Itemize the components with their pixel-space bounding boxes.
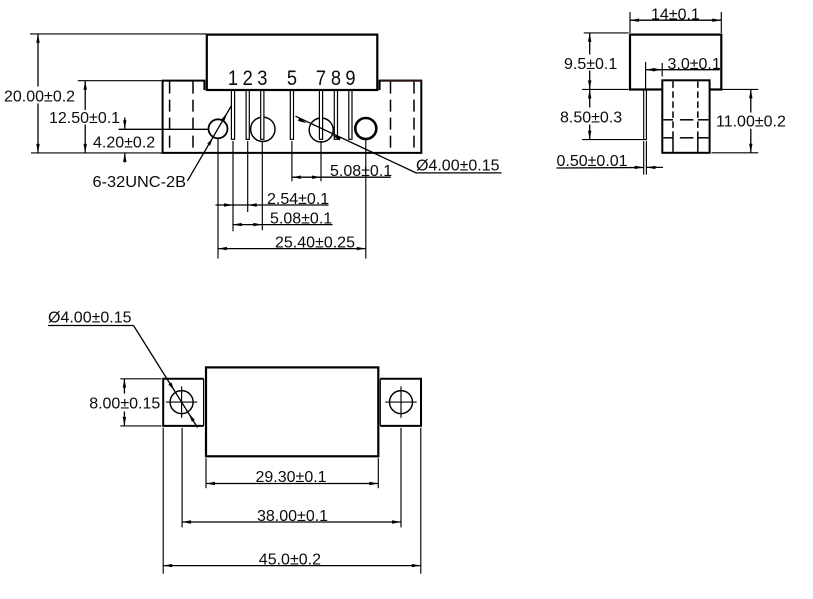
svg-text:1: 1: [228, 66, 238, 90]
pin 7 lead: [319, 91, 322, 140]
clearance circle behind pin 7 (Ø4.00): [309, 118, 333, 142]
clearance circle behind pin 3: [251, 117, 275, 141]
side view connector block: [662, 80, 709, 153]
pin 8 lead: [334, 91, 337, 140]
plan view body: [206, 367, 378, 456]
left hole crosshair h: [166, 401, 197, 403]
extension pin 3: [261, 141, 263, 230]
hidden edge left slot line 2: [192, 82, 194, 152]
pin width extension right: [645, 141, 647, 174]
dimension 14±0.1: [629, 12, 631, 33]
dimension 38.00±0.1: [181, 428, 183, 528]
extension pin 7: [320, 141, 322, 181]
svg-text:Ø4.00±0.15: Ø4.00±0.15: [416, 158, 500, 175]
dimension 25.40±0.25: [218, 248, 366, 250]
svg-text:11.00±0.2: 11.00±0.2: [716, 113, 786, 130]
plan left mounting hole: [170, 391, 193, 414]
hidden edge right slot line 1: [390, 82, 392, 152]
svg-text:2.54±0.1: 2.54±0.1: [267, 191, 329, 208]
svg-text:9.5±0.1: 9.5±0.1: [564, 56, 617, 73]
svg-text:8.00±0.15: 8.00±0.15: [89, 395, 160, 412]
svg-text:9: 9: [345, 66, 355, 90]
leader line Ø4.00 front: [296, 116, 417, 173]
dimension 5.08±0.1 pins 1-3: [233, 224, 333, 226]
dimension 9.5±0.1: [584, 32, 629, 34]
front view lid/cap: [207, 35, 377, 90]
right hole crosshair h: [385, 401, 416, 403]
pin 5 lead: [290, 91, 293, 140]
dimension 12.50±0.1: [78, 80, 162, 82]
plan view left tab: [163, 379, 203, 426]
dimension 45.0±0.2: [162, 428, 164, 574]
svg-text:7: 7: [316, 66, 326, 90]
svg-text:8.50±0.3: 8.50±0.3: [560, 109, 622, 126]
side view body: [630, 35, 721, 90]
block solid line right lower: [697, 138, 699, 152]
hole centre leader: [119, 128, 209, 130]
dimension 2.54±0.1 pins 1-2: [216, 204, 329, 206]
svg-text:2: 2: [243, 66, 253, 90]
svg-text:14±0.1: 14±0.1: [651, 6, 700, 23]
svg-text:3: 3: [257, 66, 267, 90]
extension pin 2: [247, 141, 249, 212]
dimension 8.50±0.3: [589, 89, 591, 107]
dimension 20.00±0.2: [30, 33, 206, 35]
extension left hole centre: [217, 139, 219, 259]
tapped hole 6-32UNC left: [209, 119, 228, 138]
block hidden line right: [697, 81, 699, 137]
extension pin 1: [232, 141, 234, 231]
block solid line left lower: [672, 138, 674, 152]
front view flange outline: [163, 81, 422, 153]
svg-text:8: 8: [331, 66, 341, 90]
plan view right tab: [380, 379, 421, 426]
svg-text:5.08±0.1: 5.08±0.1: [330, 163, 392, 180]
svg-text:6-32UNC-2B: 6-32UNC-2B: [93, 174, 187, 191]
svg-text:4.20±0.2: 4.20±0.2: [93, 134, 155, 151]
diameter arrow left: [298, 118, 307, 123]
svg-text:3.0±0.1: 3.0±0.1: [668, 56, 721, 73]
svg-text:Ø4.00±0.15: Ø4.00±0.15: [48, 309, 132, 326]
leader line 6-32UNC-2B: [188, 106, 232, 181]
plan right tab inner edge: [379, 379, 381, 426]
pin 2 lead: [246, 91, 249, 140]
svg-text:5.08±0.1: 5.08±0.1: [270, 211, 332, 228]
extension right hole centre: [365, 140, 367, 259]
pin 3 lead: [261, 91, 264, 140]
svg-text:5: 5: [287, 66, 297, 90]
flange top-right edge: [381, 80, 422, 82]
dimension 3.0±0.1: [645, 62, 647, 89]
block hidden line left: [672, 81, 674, 137]
left hole crosshair v: [181, 386, 183, 417]
dimension 4.20±0.2: [124, 118, 126, 130]
dimension 29.30±0.1: [205, 458, 207, 488]
svg-text:12.50±0.1: 12.50±0.1: [49, 110, 120, 127]
dimension 11.00±0.2: [723, 88, 759, 90]
dimension 8.00±0.15: [120, 378, 161, 380]
pin width extension left: [643, 141, 645, 174]
pin 1 lead: [231, 91, 234, 140]
diameter arrow right: [332, 135, 341, 140]
side view pin lead: [644, 90, 647, 140]
pin 9 lead: [349, 91, 352, 140]
svg-text:29.30±0.1: 29.30±0.1: [256, 469, 327, 486]
leader arrow lower: [207, 137, 213, 146]
dimension 5.08±0.1 pins 5-7: [292, 176, 391, 178]
hidden edge right slot line 2: [413, 82, 415, 152]
mounting hole right: [355, 118, 376, 139]
right hole crosshair v: [400, 386, 402, 417]
block horizontal line y=119.8: [663, 119, 673, 121]
svg-text:45.0±0.2: 45.0±0.2: [259, 551, 321, 568]
svg-text:25.40±0.25: 25.40±0.25: [275, 234, 355, 251]
block horizontal line y=137.8: [663, 137, 673, 139]
svg-text:20.00±0.2: 20.00±0.2: [4, 89, 75, 106]
plan left tab inner edge: [203, 379, 205, 426]
extension pin 5: [291, 141, 293, 181]
svg-text:38.00±0.1: 38.00±0.1: [257, 508, 328, 525]
hidden edge left slot line 1: [169, 82, 171, 152]
leader arrow upper: [222, 112, 228, 121]
plan right mounting hole: [390, 391, 413, 414]
